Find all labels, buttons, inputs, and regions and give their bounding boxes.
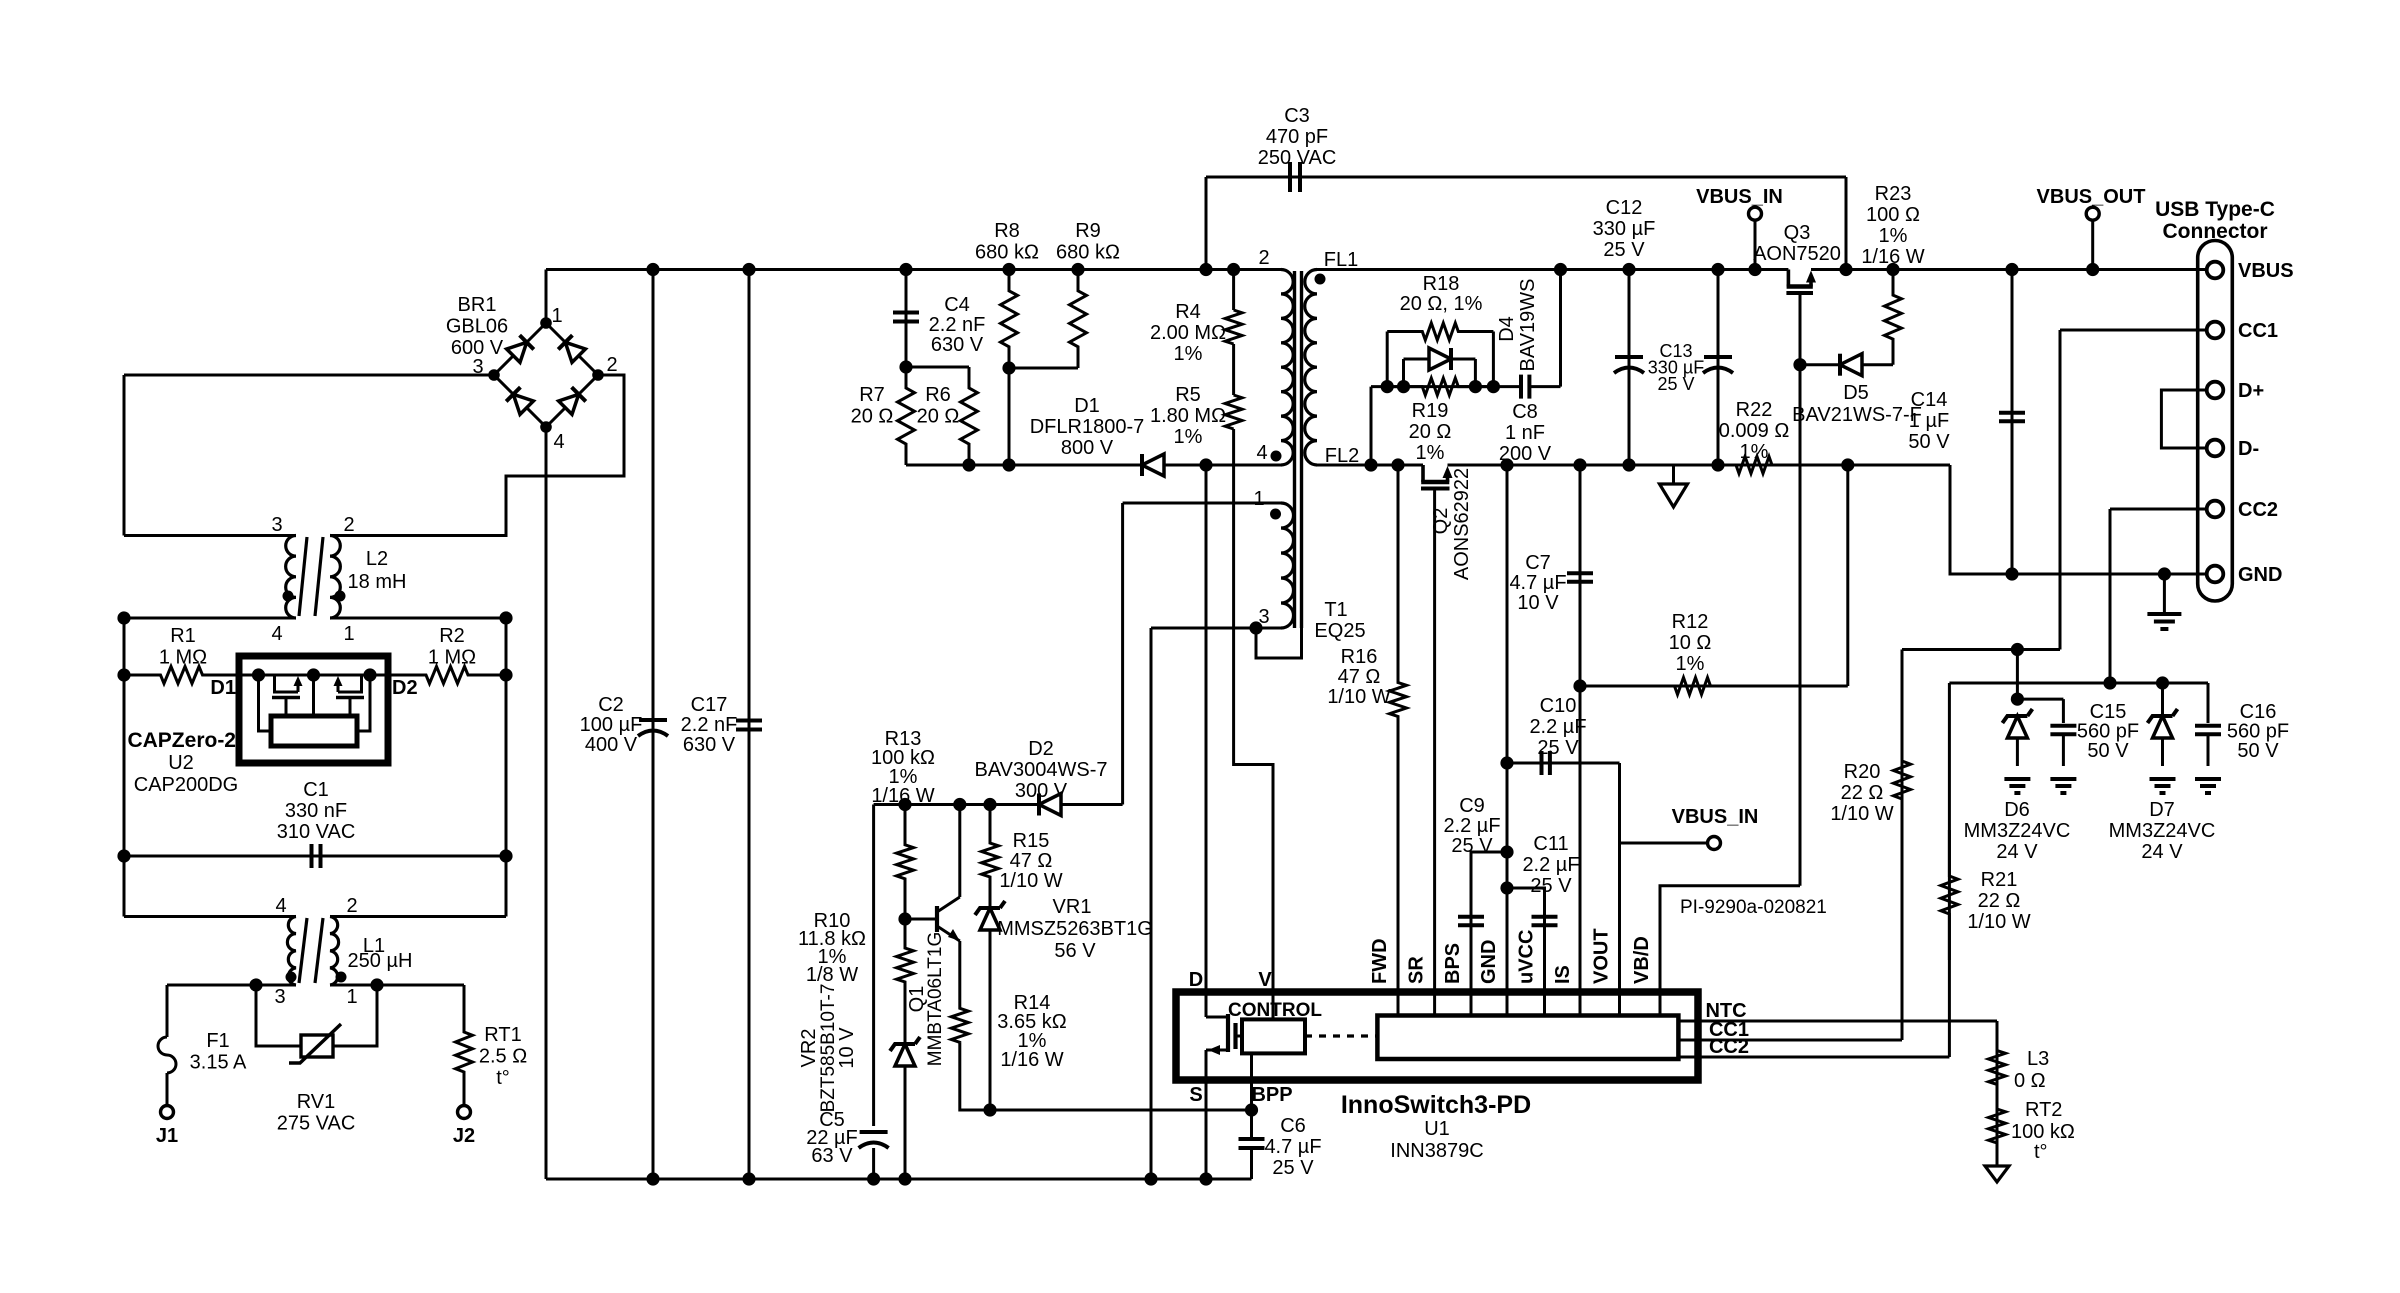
svg-text:50 V: 50 V <box>1908 431 1950 453</box>
svg-text:1: 1 <box>1253 488 1264 510</box>
svg-text:1/16 W: 1/16 W <box>871 785 934 807</box>
svg-text:R22: R22 <box>1736 399 1773 421</box>
svg-text:50 V: 50 V <box>2087 740 2129 762</box>
svg-text:U1: U1 <box>1424 1118 1450 1140</box>
svg-text:R21: R21 <box>1981 869 2018 891</box>
svg-text:IS: IS <box>1552 965 1574 984</box>
svg-text:25 V: 25 V <box>1272 1157 1314 1179</box>
svg-text:2: 2 <box>606 354 617 376</box>
svg-text:VBUS_IN: VBUS_IN <box>1672 806 1759 828</box>
svg-text:2.2 µF: 2.2 µF <box>1529 716 1586 738</box>
svg-text:20 Ω: 20 Ω <box>1409 421 1452 443</box>
svg-text:1%: 1% <box>1676 653 1705 675</box>
svg-text:100 kΩ: 100 kΩ <box>2011 1121 2075 1143</box>
svg-text:2.2 nF: 2.2 nF <box>929 314 986 336</box>
svg-text:0 Ω: 0 Ω <box>2014 1070 2046 1092</box>
svg-text:1: 1 <box>346 986 357 1008</box>
svg-text:50 V: 50 V <box>2237 740 2279 762</box>
svg-text:25 V: 25 V <box>1451 835 1493 857</box>
svg-text:2.2 nF: 2.2 nF <box>681 714 738 736</box>
svg-text:J1: J1 <box>156 1125 178 1147</box>
svg-text:R5: R5 <box>1175 384 1201 406</box>
svg-text:1 µF: 1 µF <box>1909 410 1949 432</box>
svg-text:V: V <box>1258 969 1272 991</box>
svg-text:D7: D7 <box>2149 799 2175 821</box>
svg-text:INN3879C: INN3879C <box>1390 1140 1483 1162</box>
svg-text:R9: R9 <box>1075 220 1101 242</box>
svg-text:250 VAC: 250 VAC <box>1258 147 1337 169</box>
svg-text:R18: R18 <box>1423 273 1460 295</box>
svg-text:24 V: 24 V <box>2141 841 2183 863</box>
svg-text:0.009 Ω: 0.009 Ω <box>1719 420 1790 442</box>
svg-text:25 V: 25 V <box>1530 875 1572 897</box>
svg-text:2.2 µF: 2.2 µF <box>1522 854 1579 876</box>
svg-text:R19: R19 <box>1412 400 1449 422</box>
svg-text:2.00 MΩ: 2.00 MΩ <box>1150 322 1226 344</box>
svg-text:R15: R15 <box>1013 830 1050 852</box>
svg-text:4: 4 <box>271 623 282 645</box>
svg-text:D4: D4 <box>1496 316 1518 342</box>
svg-text:C14: C14 <box>1911 389 1948 411</box>
svg-text:VBUS: VBUS <box>2238 260 2294 282</box>
svg-text:SR: SR <box>1406 956 1428 984</box>
svg-text:1/16 W: 1/16 W <box>1861 246 1924 268</box>
svg-text:2: 2 <box>1258 247 1269 269</box>
svg-text:RT1: RT1 <box>484 1024 521 1046</box>
svg-text:BPP: BPP <box>1251 1084 1292 1106</box>
svg-text:330 µF: 330 µF <box>1593 218 1656 240</box>
svg-text:1%: 1% <box>1416 442 1445 464</box>
svg-text:MMSZ5263BT1G: MMSZ5263BT1G <box>997 918 1153 940</box>
svg-text:10 Ω: 10 Ω <box>1669 632 1712 654</box>
svg-text:D5: D5 <box>1843 382 1869 404</box>
svg-text:AONS62922: AONS62922 <box>1451 468 1473 580</box>
svg-text:D6: D6 <box>2004 799 2030 821</box>
svg-text:10 V: 10 V <box>1517 592 1559 614</box>
svg-text:3: 3 <box>271 514 282 536</box>
svg-text:100 µF: 100 µF <box>580 714 643 736</box>
svg-text:BAV21WS-7-F: BAV21WS-7-F <box>1792 404 1922 426</box>
svg-text:Q2: Q2 <box>1430 508 1452 535</box>
svg-text:1%: 1% <box>1879 225 1908 247</box>
svg-text:1%: 1% <box>1174 426 1203 448</box>
svg-text:R2: R2 <box>439 625 465 647</box>
svg-text:R20: R20 <box>1844 761 1881 783</box>
svg-text:1.80 MΩ: 1.80 MΩ <box>1150 405 1226 427</box>
svg-text:1/10 W: 1/10 W <box>1327 686 1390 708</box>
svg-text:630 V: 630 V <box>931 334 984 356</box>
svg-text:2.5 Ω: 2.5 Ω <box>479 1046 527 1068</box>
svg-text:10 V: 10 V <box>836 1027 858 1069</box>
svg-text:18 mH: 18 mH <box>348 571 407 593</box>
svg-text:D: D <box>1189 969 1203 991</box>
svg-text:BR1: BR1 <box>458 294 497 316</box>
svg-text:R23: R23 <box>1875 183 1912 205</box>
svg-text:2.2 µF: 2.2 µF <box>1443 815 1500 837</box>
svg-text:VB/D: VB/D <box>1631 936 1653 984</box>
svg-text:BPS: BPS <box>1442 943 1464 984</box>
svg-text:56 V: 56 V <box>1054 940 1096 962</box>
svg-text:VOUT: VOUT <box>1591 928 1613 984</box>
svg-text:C12: C12 <box>1606 197 1643 219</box>
svg-text:uVCC: uVCC <box>1516 930 1538 984</box>
svg-text:24 V: 24 V <box>1996 841 2038 863</box>
svg-text:VBUS_IN: VBUS_IN <box>1696 186 1783 208</box>
svg-text:800 V: 800 V <box>1061 437 1114 459</box>
svg-text:PI-9290a-020821: PI-9290a-020821 <box>1680 897 1827 918</box>
svg-text:4.7 µF: 4.7 µF <box>1264 1136 1321 1158</box>
svg-text:100 Ω: 100 Ω <box>1866 204 1920 226</box>
svg-text:250 µH: 250 µH <box>348 950 413 972</box>
svg-text:25 V: 25 V <box>1603 239 1645 261</box>
svg-text:BAV19WS: BAV19WS <box>1517 279 1539 372</box>
svg-text:310 VAC: 310 VAC <box>277 821 356 843</box>
svg-text:C8: C8 <box>1512 401 1538 423</box>
svg-text:20 Ω, 1%: 20 Ω, 1% <box>1400 293 1483 315</box>
svg-text:GND: GND <box>1478 940 1500 984</box>
svg-text:470 pF: 470 pF <box>1266 126 1328 148</box>
svg-text:DFLR1800-7: DFLR1800-7 <box>1030 416 1145 438</box>
svg-text:20 Ω: 20 Ω <box>917 406 960 428</box>
svg-text:t°: t° <box>2034 1141 2048 1163</box>
svg-text:3: 3 <box>274 986 285 1008</box>
svg-text:4: 4 <box>275 895 286 917</box>
svg-text:1/10 W: 1/10 W <box>999 870 1062 892</box>
svg-text:C17: C17 <box>691 694 728 716</box>
svg-text:Connector: Connector <box>2163 220 2268 243</box>
svg-text:R7: R7 <box>859 384 885 406</box>
svg-text:L2: L2 <box>366 548 388 570</box>
svg-text:330 nF: 330 nF <box>285 800 347 822</box>
svg-text:t°: t° <box>496 1067 510 1089</box>
svg-text:CC1: CC1 <box>2238 320 2278 342</box>
svg-text:MM3Z24VC: MM3Z24VC <box>2109 820 2216 842</box>
svg-text:47 Ω: 47 Ω <box>1010 850 1053 872</box>
svg-text:GND: GND <box>2238 564 2282 586</box>
svg-text:Q3: Q3 <box>1784 222 1811 244</box>
svg-text:AON7520: AON7520 <box>1753 243 1841 265</box>
svg-text:C2: C2 <box>598 694 624 716</box>
svg-text:D2: D2 <box>1028 738 1054 760</box>
svg-text:C9: C9 <box>1459 795 1485 817</box>
svg-text:C6: C6 <box>1280 1115 1306 1137</box>
svg-text:1/10 W: 1/10 W <box>1830 803 1893 825</box>
svg-text:22 Ω: 22 Ω <box>1841 782 1884 804</box>
svg-text:1 MΩ: 1 MΩ <box>428 647 476 669</box>
svg-text:400 V: 400 V <box>585 734 638 756</box>
svg-text:1 MΩ: 1 MΩ <box>159 647 207 669</box>
svg-text:2: 2 <box>346 895 357 917</box>
svg-text:CC2: CC2 <box>2238 499 2278 521</box>
svg-text:4.7 µF: 4.7 µF <box>1509 572 1566 594</box>
svg-text:C10: C10 <box>1540 695 1577 717</box>
svg-text:R6: R6 <box>925 384 951 406</box>
svg-text:4: 4 <box>553 431 564 453</box>
svg-text:D-: D- <box>2238 438 2259 460</box>
svg-text:C7: C7 <box>1525 552 1551 574</box>
svg-text:EQ25: EQ25 <box>1314 620 1365 642</box>
svg-text:1 nF: 1 nF <box>1505 422 1545 444</box>
svg-text:BAV3004WS-7: BAV3004WS-7 <box>974 759 1107 781</box>
svg-text:VR2: VR2 <box>798 1029 820 1068</box>
svg-text:R12: R12 <box>1672 611 1709 633</box>
svg-text:R16: R16 <box>1341 646 1378 668</box>
svg-text:1/10 W: 1/10 W <box>1967 911 2030 933</box>
svg-text:20 Ω: 20 Ω <box>851 406 894 428</box>
svg-text:R1: R1 <box>170 625 196 647</box>
svg-text:63 V: 63 V <box>811 1145 853 1167</box>
svg-text:RV1: RV1 <box>297 1091 336 1113</box>
svg-text:CAPZero-2: CAPZero-2 <box>127 729 236 752</box>
svg-text:CONTROL: CONTROL <box>1228 1000 1322 1021</box>
svg-text:3.15 A: 3.15 A <box>190 1052 247 1074</box>
svg-text:300 V: 300 V <box>1015 780 1068 802</box>
svg-text:2: 2 <box>343 514 354 536</box>
svg-text:R4: R4 <box>1175 301 1201 323</box>
svg-text:275 VAC: 275 VAC <box>277 1113 356 1135</box>
svg-text:D1: D1 <box>1074 395 1100 417</box>
svg-text:C4: C4 <box>944 294 970 316</box>
svg-text:4: 4 <box>1256 442 1267 464</box>
svg-text:D1: D1 <box>210 677 236 699</box>
svg-text:1%: 1% <box>1174 343 1203 365</box>
svg-text:VR1: VR1 <box>1053 896 1092 918</box>
svg-text:FWD: FWD <box>1369 938 1391 984</box>
svg-text:1/16 W: 1/16 W <box>1000 1049 1063 1071</box>
svg-text:1: 1 <box>343 623 354 645</box>
svg-text:D+: D+ <box>2238 380 2264 402</box>
svg-text:25 V: 25 V <box>1537 737 1579 759</box>
svg-text:S: S <box>1189 1084 1202 1106</box>
svg-text:CAP200DG: CAP200DG <box>134 774 239 796</box>
svg-text:MM3Z24VC: MM3Z24VC <box>1964 820 2071 842</box>
svg-text:U2: U2 <box>168 752 194 774</box>
svg-text:F1: F1 <box>206 1030 229 1052</box>
svg-text:J2: J2 <box>453 1125 475 1147</box>
svg-text:630 V: 630 V <box>683 734 736 756</box>
svg-text:FL1: FL1 <box>1324 249 1358 271</box>
svg-text:680 kΩ: 680 kΩ <box>975 242 1039 264</box>
svg-text:RT2: RT2 <box>2025 1099 2062 1121</box>
svg-text:USB Type-C: USB Type-C <box>2155 198 2275 221</box>
svg-text:C3: C3 <box>1284 105 1310 127</box>
svg-text:22 Ω: 22 Ω <box>1978 890 2021 912</box>
svg-text:L3: L3 <box>2027 1048 2049 1070</box>
svg-text:1%: 1% <box>1740 441 1769 463</box>
svg-text:VBUS_OUT: VBUS_OUT <box>2037 186 2146 208</box>
svg-text:C1: C1 <box>303 779 329 801</box>
svg-text:1: 1 <box>551 305 562 327</box>
svg-text:InnoSwitch3-PD: InnoSwitch3-PD <box>1341 1091 1531 1119</box>
svg-text:47 Ω: 47 Ω <box>1338 666 1381 688</box>
svg-text:D2: D2 <box>392 677 418 699</box>
svg-text:1/8 W: 1/8 W <box>806 964 858 986</box>
svg-text:T1: T1 <box>1324 599 1347 621</box>
svg-text:MMBTA06LT1G: MMBTA06LT1G <box>925 932 946 1066</box>
svg-text:680 kΩ: 680 kΩ <box>1056 242 1120 264</box>
svg-text:GBL06: GBL06 <box>446 316 508 338</box>
svg-text:25 V: 25 V <box>1657 374 1694 394</box>
svg-text:C11: C11 <box>1533 833 1568 855</box>
svg-text:R8: R8 <box>994 220 1020 242</box>
